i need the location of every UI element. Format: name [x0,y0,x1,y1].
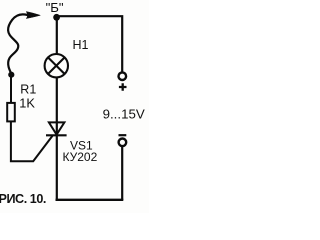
wire: gate diagonal and run to resistor [11,122,53,162]
svg-text:1K: 1K [19,95,35,110]
svg-text:H1: H1 [73,38,89,52]
svg-text:R1: R1 [20,82,36,96]
svg-text:"Б": "Б" [46,0,64,15]
plus sign [119,83,127,91]
thyristor VS1 triangle [49,122,65,134]
svg-text:9...15V: 9...15V [103,106,145,121]
svg-text:РИС. 10.: РИС. 10. [0,192,46,206]
arrowhead on probe [26,12,40,19]
terminal + circle [119,72,127,80]
wire: lamp to thyristor anode [56,77,58,134]
lamp H1 [45,54,68,77]
thyristor cathode bar [46,134,67,136]
wire: bottom horizontal [56,199,124,201]
resistor R1 [7,103,15,122]
node junction dot at Б [53,14,60,21]
terminal - circle [119,139,127,147]
wire: touch probe squiggle [8,14,27,73]
svg-text:КУ202: КУ202 [63,150,98,164]
wire: from - terminal down [121,147,123,201]
wire: top horizontal to + terminal [57,16,123,71]
wire: cathode down to bottom [56,135,58,200]
minus sign [119,134,127,136]
wire: Б node down to lamp [56,17,58,54]
wire: resistor top to junction dot [10,75,12,103]
node junction dot at probe/resistor [8,72,14,78]
